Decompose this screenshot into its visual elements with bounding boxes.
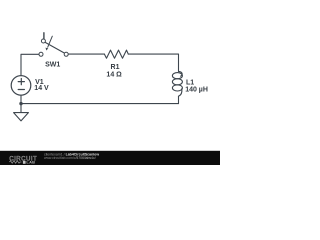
watermark bar: [0, 151, 220, 165]
node junction at V1/ground/bottom rail: [19, 102, 22, 105]
svg-text:L1: L1: [186, 79, 194, 86]
svg-text:14 V: 14 V: [34, 85, 49, 92]
logo resistor zigzag: [9, 161, 21, 164]
svg-text:14 Ω: 14 Ω: [106, 72, 122, 79]
wire SW1 top stub: [43, 33, 45, 39]
svg-text:LAB: LAB: [26, 160, 35, 165]
inductor L1: [172, 71, 182, 96]
wire from V1 minus down to ground: [20, 95, 22, 112]
wire L1 bottom to bottom rail: [178, 96, 180, 103]
svg-text:www.circuitlab.com/c/5706/labs: www.circuitlab.com/c/5706/labs4c/: [44, 156, 96, 160]
svg-text:140 µH: 140 µH: [185, 87, 208, 94]
svg-text:R1: R1: [111, 64, 120, 71]
ground: [14, 113, 29, 121]
voltage source V1: [11, 76, 31, 96]
wire bottom rail: [21, 103, 179, 105]
CircuitLab logo wordmark: [9, 155, 37, 164]
wire R1 to top-right corner down to L1: [128, 54, 178, 71]
wire from SW1 left terminal to V1 plus: [21, 54, 39, 75]
switch SW1: [39, 36, 68, 56]
resistor R1: [104, 50, 128, 58]
wire SW1 right terminal to R1: [68, 53, 104, 55]
logo LAB block: [23, 161, 26, 164]
svg-text:SW1: SW1: [45, 61, 60, 68]
